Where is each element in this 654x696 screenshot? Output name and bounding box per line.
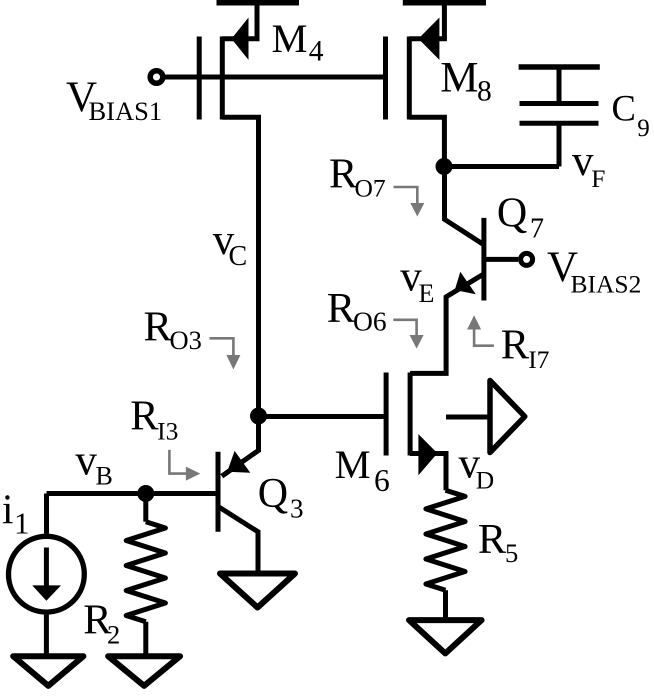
node vB junction dot [137,485,154,502]
svg-text:R: R [501,321,530,368]
signal flow arrow line [446,415,489,420]
capacitor C9 top plate [520,101,599,106]
resistor R5 zigzag [426,490,465,590]
arrow RI7 (elbow up) [474,329,494,346]
transistor M8 drain lead to vF node [409,117,444,166]
transistor M4 source arrow [232,18,249,60]
svg-text:8: 8 [477,75,492,107]
svg-text:R: R [327,285,356,332]
svg-text:1: 1 [14,505,30,540]
svg-text:O3: O3 [170,325,202,355]
resistor R5 lead bottom [443,590,448,619]
ground (Q3 collector) [220,574,295,608]
svg-text:R: R [144,303,173,350]
transistor M8 source lead to rail [409,3,444,39]
transistor M6 channel bar [408,373,413,456]
terminal circle VBIAS1 [150,71,163,84]
svg-text:D: D [476,465,494,494]
svg-text:F: F [591,164,605,193]
svg-text:I7: I7 [528,345,549,374]
current source i1 lead bottom [44,615,49,654]
node vF junction dot [436,158,453,175]
resistor R2 lead top [143,494,148,522]
svg-text:R: R [130,393,159,440]
transistor M6 gate bar [384,373,389,456]
arrow RO7 (elbow down) [394,187,418,204]
current source i1 circle [9,536,85,612]
resistor R2 lead bottom [143,622,148,654]
svg-text:6: 6 [374,463,390,498]
transistor Q7 emitter arrow [455,272,476,294]
transistor Q3 base bar [216,452,221,532]
svg-text:O7: O7 [355,173,386,202]
svg-text:E: E [419,279,435,308]
svg-text:BIAS2: BIAS2 [571,269,642,298]
transistor M6 source arrow [418,434,437,475]
svg-text:I3: I3 [157,416,178,445]
transistor Q3 emitter arrow [227,451,250,473]
transistor M4 source lead to rail [222,3,257,39]
transistor Q7 collector lead [445,167,484,245]
svg-text:4: 4 [309,35,324,67]
transistor Q7 base lead [484,257,518,262]
arrow RO3 (elbow down) [210,338,234,355]
gray annotation arrows [169,187,494,481]
svg-text:3: 3 [290,494,304,524]
svg-text:BIAS1: BIAS1 [89,96,163,126]
transistor Q7 base bar [481,218,486,301]
svg-text:M: M [440,55,478,102]
svg-text:R: R [478,516,507,563]
current source i1 arrow shaft [44,548,49,589]
current source i1 lead top [44,494,49,534]
ground (R2) [108,656,180,686]
capacitor C9 bottom plate [520,121,599,126]
svg-text:C: C [229,241,248,272]
node A junction dot (vC / M6 gate / Q3) [250,408,267,425]
ground (R5) [409,620,482,653]
svg-text:Q: Q [258,471,288,517]
transistor M8 channel bar [407,37,412,120]
transistor M4 drain lead [222,117,258,412]
svg-text:2: 2 [107,619,120,649]
wire vF node to C9 [444,164,559,169]
ground (i1) [13,656,83,686]
transistor M8 source arrow [418,18,439,60]
svg-text:9: 9 [637,115,650,142]
capacitor C9 top lead [557,67,562,104]
svg-text:Q: Q [497,190,527,236]
power rail bar (M8 source supply) [403,0,486,6]
svg-text:O6: O6 [353,306,387,337]
transistor Q3 collector lead [219,507,258,570]
transistor Q7 emitter lead [410,274,484,374]
svg-text:C: C [612,88,636,129]
terminal circle VBIAS2 [521,253,533,265]
transistor M8 gate bar [383,37,388,120]
svg-text:i: i [2,488,14,534]
svg-text:B: B [96,461,113,490]
annotation labels (black) [130,151,549,446]
resistor R2 zigzag [126,522,165,622]
capacitor C9 bottom lead [557,123,562,166]
wire node A to M6 gate [259,414,387,419]
power rail bar (M4 source supply) [217,0,300,6]
svg-text:M: M [335,442,371,487]
transistor M4 channel bar [220,37,225,120]
power rail bar (C9 top supply) [519,64,600,70]
transistor Q3 emitter lead from node A [222,416,259,476]
transistor M4 gate bar [197,37,202,120]
svg-text:M: M [272,16,308,61]
svg-text:7: 7 [530,213,544,244]
signal flow open arrow [490,381,525,453]
current source i1 arrow head [32,585,61,600]
arrow RI3 (elbow right) [169,450,187,474]
transistor M6 source lead [410,454,446,491]
arrow RO6 (elbow down) [393,320,416,336]
wire vB (i1 to Q3 base) [47,491,217,496]
wire VBIAS1 to M8 gate [164,75,386,80]
svg-text:5: 5 [505,538,518,568]
svg-text:v: v [75,438,97,485]
